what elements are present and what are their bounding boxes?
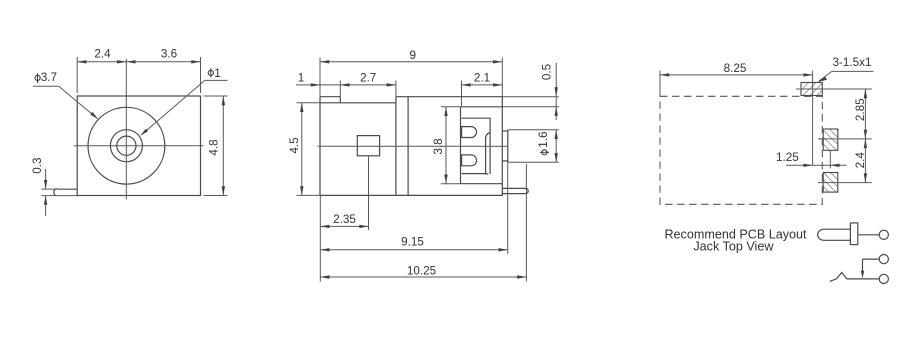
- svg-text:1: 1: [298, 71, 305, 84]
- svg-text:2.4: 2.4: [854, 152, 867, 169]
- svg-text:1.6: 1.6: [537, 131, 550, 147]
- svg-text:9: 9: [410, 49, 417, 62]
- svg-text:0.5: 0.5: [540, 63, 553, 80]
- svg-text:3-1.5x1: 3-1.5x1: [833, 56, 872, 69]
- svg-text:4.8: 4.8: [208, 139, 221, 155]
- svg-text:3.7: 3.7: [41, 71, 57, 84]
- svg-text:2.1: 2.1: [474, 71, 490, 84]
- svg-text:3.6: 3.6: [161, 47, 177, 60]
- svg-text:2.35: 2.35: [333, 213, 356, 226]
- svg-text:4.5: 4.5: [288, 137, 301, 154]
- svg-text:0.3: 0.3: [31, 157, 44, 173]
- svg-text:3.8: 3.8: [432, 138, 445, 154]
- svg-text:1: 1: [214, 67, 221, 80]
- svg-text:Jack Top View: Jack Top View: [693, 239, 774, 253]
- svg-text:2.4: 2.4: [94, 47, 111, 60]
- svg-text:2.7: 2.7: [360, 71, 376, 84]
- svg-text:1.25: 1.25: [776, 151, 799, 164]
- svg-text:10.25: 10.25: [407, 264, 437, 277]
- svg-text:8.25: 8.25: [724, 62, 747, 75]
- svg-text:2.85: 2.85: [854, 98, 867, 121]
- svg-text:9.15: 9.15: [401, 236, 424, 249]
